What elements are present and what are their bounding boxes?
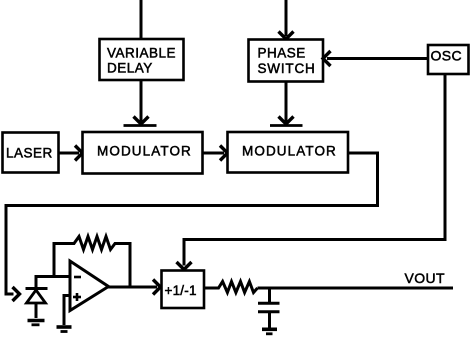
- port bar above MODULATOR 1: [124, 124, 157, 127]
- port bar above MODULATOR 2: [270, 124, 303, 127]
- wire: MODULATOR 2 optical output down-around to photodiode: [6, 153, 378, 294]
- arrowhead down into MODULATOR 2 port: [279, 117, 294, 125]
- wire: PHASE SWITCH to MODULATOR 2: [285, 82, 288, 123]
- wire: op-amp non-inverting input to ground: [64, 296, 70, 326]
- output resistor R2: [204, 282, 258, 293]
- ground below capacitor: [262, 329, 277, 334]
- block PHASE SWITCH: [249, 40, 324, 82]
- ground below photodiode: [28, 321, 45, 325]
- block +1/-1: [162, 271, 205, 309]
- svg-text:VARIABLE: VARIABLE: [107, 46, 176, 61]
- arrowhead down into +1/-1: [177, 262, 192, 270]
- arrowhead into PHASE SWITCH right side: [323, 51, 331, 66]
- arrowhead into MODULATOR 1: [75, 146, 83, 161]
- svg-text:LASER: LASER: [6, 146, 53, 161]
- wire: OSC down to +1/-1: [184, 74, 445, 266]
- svg-text:PHASE: PHASE: [258, 46, 306, 61]
- photodiode D1: [26, 275, 48, 318]
- svg-text:SWITCH: SWITCH: [258, 61, 316, 76]
- svg-text:MODULATOR: MODULATOR: [242, 144, 337, 159]
- block MODULATOR 2: [228, 132, 349, 173]
- wire: op-amp output to +1/-1: [107, 286, 157, 289]
- arrowhead down into PHASE SWITCH: [279, 32, 294, 40]
- block VARIABLE DELAY: [100, 39, 184, 80]
- feedback resistor R1: [54, 237, 130, 288]
- wire: VARIABLE DELAY to MODULATOR 1: [140, 80, 143, 123]
- block LASER: [3, 133, 59, 173]
- wire: photodiode to op-amp inverting input: [35, 275, 71, 278]
- svg-text:+1/-1: +1/-1: [165, 283, 197, 298]
- wire: MODULATOR 1 to MODULATOR 2: [203, 152, 224, 155]
- svg-text:OSC: OSC: [431, 47, 463, 63]
- wire: top feed into VARIABLE DELAY: [140, 0, 143, 40]
- arrowhead light into photodiode: [13, 287, 20, 301]
- wire: output line to VOUT: [258, 287, 454, 290]
- block OSC: [428, 45, 469, 74]
- arrowhead into MODULATOR 2: [220, 146, 228, 161]
- block MODULATOR 1: [83, 132, 203, 174]
- svg-text:VOUT: VOUT: [405, 270, 446, 286]
- arrowhead down into MODULATOR 1 port: [134, 117, 149, 125]
- capacitor C1: [258, 288, 280, 328]
- wire: top feed into PHASE SWITCH: [285, 0, 288, 36]
- wire: OSC to PHASE SWITCH: [327, 57, 428, 60]
- ground below op-amp + input: [57, 327, 72, 332]
- op-amp U1: [70, 261, 109, 311]
- arrowhead into +1/-1: [153, 280, 161, 295]
- wire: LASER to MODULATOR 1: [59, 152, 80, 155]
- svg-text:MODULATOR: MODULATOR: [97, 144, 192, 159]
- svg-text:DELAY: DELAY: [107, 61, 153, 76]
